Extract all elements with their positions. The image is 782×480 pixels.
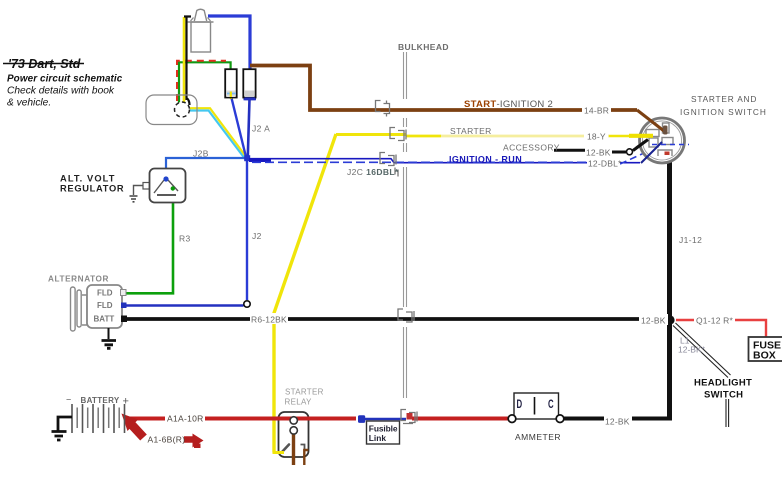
svg-text:ALTERNATOR: ALTERNATOR (48, 275, 109, 284)
svg-text:R6-12BK: R6-12BK (251, 315, 287, 325)
svg-text:12-DBL*: 12-DBL* (588, 159, 622, 169)
svg-text:Link: Link (369, 433, 387, 443)
svg-text:FLD: FLD (97, 289, 113, 298)
svg-text:SWITCH: SWITCH (704, 390, 743, 401)
svg-text:J2C 16DBL*: J2C 16DBL* (347, 167, 399, 177)
svg-text:J2 A: J2 A (252, 124, 270, 134)
svg-text:J2: J2 (252, 231, 262, 241)
svg-text:12-BK*: 12-BK* (678, 345, 706, 355)
svg-text:FLD: FLD (97, 301, 113, 310)
svg-text:& vehicle.: & vehicle. (7, 98, 51, 109)
svg-text:Check details with book: Check details with book (7, 86, 115, 97)
svg-text:Fusible: Fusible (369, 424, 398, 434)
svg-text:12-BK: 12-BK (641, 316, 666, 326)
svg-text:A1-6B(R): A1-6B(R) (148, 435, 186, 445)
svg-text:AMMETER: AMMETER (515, 432, 561, 442)
svg-text:C: C (548, 399, 554, 412)
svg-text:STARTER AND: STARTER AND (691, 94, 757, 104)
svg-text:STARTER: STARTER (450, 126, 492, 136)
svg-text:HEADLIGHT: HEADLIGHT (694, 378, 752, 389)
svg-text:ALT. VOLT: ALT. VOLT (60, 174, 116, 184)
svg-text:IGNITION SWITCH: IGNITION SWITCH (680, 107, 767, 117)
svg-text:J1-12: J1-12 (679, 235, 702, 245)
svg-text:A1A-10R: A1A-10R (167, 414, 204, 424)
svg-text:Q1-12 R*: Q1-12 R* (696, 316, 734, 326)
svg-text:BATTERY: BATTERY (81, 396, 120, 405)
svg-text:J2B: J2B (193, 149, 209, 159)
svg-text:+: + (123, 396, 129, 408)
svg-text:REGULATOR: REGULATOR (60, 184, 124, 194)
svg-text:STARTER: STARTER (285, 388, 324, 397)
svg-text:−: − (66, 395, 71, 405)
svg-text:ACCESSORY: ACCESSORY (503, 143, 560, 153)
svg-text:BOX: BOX (753, 350, 776, 362)
svg-text:R3: R3 (179, 234, 191, 244)
svg-text:D: D (517, 399, 523, 412)
svg-text:IGNITION - RUN: IGNITION - RUN (449, 155, 522, 165)
svg-text:RELAY: RELAY (285, 398, 313, 407)
svg-text:BATT: BATT (94, 315, 115, 324)
svg-text:START-IGNITION 2: START-IGNITION 2 (464, 99, 553, 110)
svg-text:BULKHEAD: BULKHEAD (398, 42, 449, 52)
svg-text:12-BK: 12-BK (586, 148, 611, 158)
svg-text:12-BK: 12-BK (605, 417, 630, 427)
svg-text:18-Y: 18-Y (587, 132, 606, 142)
svg-text:Power circuit schematic: Power circuit schematic (7, 74, 123, 85)
svg-text:14-BR: 14-BR (584, 106, 609, 116)
